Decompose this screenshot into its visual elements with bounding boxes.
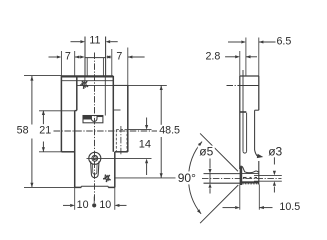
angle line lower [200, 185, 238, 223]
right wing step line [113, 109, 120, 111]
tongue bar [204, 174, 259, 184]
svg-text:10: 10 [99, 199, 111, 211]
left wing bottom edge [61, 151, 74, 153]
angle arc [189, 142, 203, 214]
side view slot right wall [243, 113, 247, 153]
dim 7 left extension lines [61, 51, 74, 76]
svg-text:ø5: ø5 [199, 145, 213, 159]
top tab [85, 37, 106, 77]
case top edge [61, 75, 113, 77]
keyhole [89, 152, 101, 177]
svg-text:11: 11 [89, 34, 100, 46]
body right upper edge [112, 76, 114, 152]
dim 10 extension lines [75, 187, 115, 209]
dim 7 left [49, 51, 85, 63]
dim 58 [17, 76, 34, 187]
rivet top [80, 81, 88, 89]
svg-text:7: 7 [65, 51, 71, 63]
dim 48.5 extension line bottom [115, 177, 176, 179]
dim 2.8 [205, 50, 257, 62]
dim 10.5 [223, 201, 301, 213]
svg-text:ø3: ø3 [268, 145, 282, 159]
latch slot [83, 116, 103, 123]
dim 14 extension lines [87, 130, 152, 159]
svg-text:10: 10 [77, 199, 89, 211]
svg-text:21: 21 [39, 125, 51, 137]
side view back face upper [258, 76, 260, 110]
tongue centerline [202, 177, 282, 179]
dim 10 right [99, 199, 126, 211]
svg-text:10.5: 10.5 [279, 201, 300, 213]
right wing outer edge [127, 85, 129, 151]
side view front face [239, 76, 241, 169]
body left lower edge [74, 110, 76, 187]
side view top edge [240, 75, 259, 77]
side view back face lower [258, 161, 260, 172]
right wing top edge [113, 84, 128, 86]
svg-text:7: 7 [116, 51, 122, 63]
dim 48.5 [158, 85, 181, 177]
dim 7 right [106, 51, 145, 63]
body left step [75, 109, 77, 111]
dim 21 extension lines [39, 111, 77, 152]
dim 58 extension lines [24, 76, 75, 188]
right wing hidden slot [116, 130, 127, 152]
side view back face mid [254, 110, 256, 150]
svg-text:14: 14 [139, 138, 151, 150]
rivet bottom [103, 175, 111, 183]
cam left dark edge [240, 167, 243, 185]
dim 11 [71, 34, 118, 46]
case inner wall line [104, 76, 106, 116]
side view line y85 [227, 85, 259, 87]
rotation arrow [255, 150, 264, 158]
dim 21 [39, 110, 51, 151]
tab left inner edge extended [84, 76, 86, 82]
right wing bottom edge [115, 151, 128, 153]
body right lower edge [114, 152, 116, 188]
svg-text:90°: 90° [178, 171, 196, 185]
case bottom edge [75, 186, 115, 187]
case shelf line [77, 84, 167, 86]
label 90deg [176, 171, 197, 185]
dim 6.5 [228, 35, 291, 47]
dim 14 [139, 118, 151, 176]
dim 2.8 extension line [245, 38, 247, 76]
svg-text:48.5: 48.5 [159, 125, 180, 137]
dim 7 right extension lines [112, 48, 128, 86]
knurl marks [243, 177, 257, 179]
side view weld tick [240, 111, 247, 113]
dim dia5 [198, 145, 215, 194]
case top inner line [61, 80, 113, 82]
dim dia3 [268, 145, 282, 193]
side view front inner line [242, 70, 244, 151]
dim 10 left [63, 199, 89, 211]
dim 10.5 extension lines [240, 185, 259, 210]
serrated washer [240, 171, 259, 185]
right wing slot centerline [120, 126, 122, 156]
lock case horizontal centerline [54, 130, 158, 132]
cam pin edges [254, 175, 282, 181]
cam wavy edge [240, 166, 259, 173]
dim 10 10 center dot [92, 197, 96, 208]
svg-text:2.8: 2.8 [205, 50, 220, 62]
lock case vertical centerline [94, 53, 96, 202]
left wing outer edge [60, 76, 62, 152]
svg-text:58: 58 [17, 125, 29, 137]
side view back jog [255, 109, 259, 111]
body left upper edge [76, 76, 78, 110]
svg-text:6.5: 6.5 [276, 35, 291, 47]
angle line upper [200, 133, 238, 171]
dim 6.5 extension lines [240, 38, 259, 77]
